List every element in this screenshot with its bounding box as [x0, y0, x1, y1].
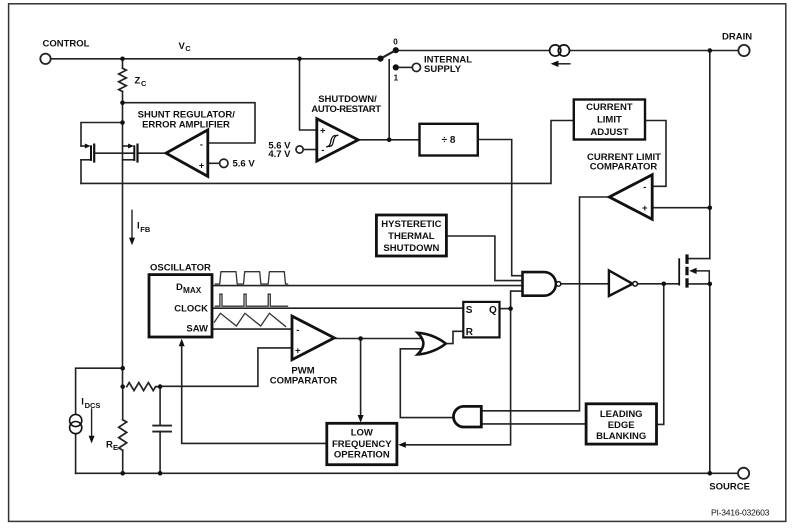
arrowhead IDCS: [89, 436, 95, 444]
terminal DRAIN: [738, 45, 749, 56]
terminal CONTROL: [40, 54, 50, 64]
wire div8 output to NAND: [478, 140, 522, 276]
wire MOSFET body lead: [694, 271, 709, 284]
wire Q to NAND input: [511, 291, 522, 309]
gate inverter: [609, 270, 633, 296]
wire drain vertical: [709, 51, 711, 259]
resistor ZC: [119, 68, 127, 91]
wire feedback loop to error amp minus: [123, 103, 256, 143]
svg-text:FB: FB: [140, 225, 151, 234]
wire node A vertical: [122, 103, 124, 123]
svg-text:HYSTERETIC: HYSTERETIC: [381, 219, 441, 230]
svg-text:DRAIN: DRAIN: [722, 32, 752, 43]
comparator PWM: [292, 316, 334, 360]
arrowhead Q2 drain: [128, 144, 134, 149]
terminal INTERNAL SUPPLY: [412, 63, 420, 71]
oscillator box: [149, 275, 212, 337]
waveform DMAX square wave: [215, 272, 287, 284]
svg-text:C: C: [141, 79, 147, 88]
svg-text:EDGE: EDGE: [608, 420, 635, 431]
wire AND output to OR input: [400, 349, 453, 418]
wire thermal shutdown to NAND: [447, 236, 522, 281]
svg-text:R: R: [106, 439, 113, 450]
comparator shutdown/auto-restart: [317, 119, 358, 161]
wire ZC bottom to feedback node: [122, 92, 124, 103]
terminal SOURCE: [738, 468, 749, 479]
svg-text:LIMIT: LIMIT: [597, 115, 622, 126]
wire capacitor top: [159, 387, 161, 426]
transistor M1 channel dashes: [685, 254, 688, 287]
latch S-R box: [463, 302, 499, 338]
svg-text:SHUTDOWN/: SHUTDOWN/: [318, 94, 377, 105]
wire LEB to AND input: [483, 423, 586, 425]
gate NAND U1: [523, 272, 556, 296]
gate inverter bubble: [633, 282, 638, 287]
svg-text:SHUTDOWN: SHUTDOWN: [383, 243, 439, 254]
wire RE bottom: [122, 450, 124, 473]
switch contact 1: [393, 64, 399, 70]
junction source rail: [708, 471, 713, 476]
transistor Q2 channel bar: [136, 145, 138, 162]
svg-text:OPERATION: OPERATION: [334, 450, 390, 461]
svg-text:E: E: [113, 443, 118, 452]
svg-text:SAW: SAW: [186, 323, 208, 334]
resistor feedback R: [127, 383, 160, 391]
svg-text:SOURCE: SOURCE: [709, 482, 750, 493]
svg-text:C: C: [185, 44, 191, 53]
wire inverter output to gate node: [638, 283, 679, 285]
wire IDCS branch: [76, 368, 123, 414]
svg-text:I: I: [81, 397, 84, 408]
junction PWM output: [358, 336, 363, 341]
svg-text:S: S: [466, 305, 473, 316]
comparator current limit: [609, 175, 652, 220]
junction comparator plus: [708, 205, 713, 210]
svg-text:ADJUST: ADJUST: [590, 127, 628, 138]
wire Q1 drain lead: [81, 145, 85, 147]
terminal 5.6V reference: [220, 159, 228, 167]
leading edge blanking box: [586, 404, 656, 444]
wire SAW line to PWM minus: [213, 328, 292, 330]
wire switch lever: [381, 50, 396, 58]
wire CLOCK line to latch S: [213, 307, 464, 309]
divide-by-8 box: [420, 124, 478, 156]
junction cap rail: [158, 471, 163, 476]
wire shutdown output to switch: [388, 60, 390, 140]
wire MOSFET drain lead: [689, 258, 710, 260]
hysteretic thermal shutdown box: [376, 215, 446, 256]
junction VC-shutdown: [297, 57, 302, 62]
current source IS1 circles: [550, 45, 561, 56]
wire OR output to latch R: [446, 331, 463, 343]
arrowhead MOSFET body: [689, 268, 696, 274]
wire shunt rail to CURRENT LIMIT ADJUST: [81, 121, 573, 184]
svg-text:CURRENT: CURRENT: [586, 102, 633, 113]
svg-text:1: 1: [394, 73, 399, 82]
wire IFB arrow line: [131, 210, 133, 238]
svg-text:LEADING: LEADING: [600, 409, 643, 420]
wire capacitor bottom: [159, 432, 161, 474]
svg-text:I: I: [137, 220, 140, 231]
low frequency operation box: [327, 423, 397, 464]
svg-text:FREQUENCY: FREQUENCY: [332, 439, 392, 450]
wire latch Q output: [500, 308, 511, 310]
junction gate node: [661, 282, 666, 287]
transistor Q2 gate bar: [133, 146, 135, 160]
arrowhead Q to LFO: [398, 442, 406, 448]
wire switch 1 to INTERNAL SUPPLY: [399, 66, 412, 68]
wire VC rail CONTROL to switch: [51, 58, 378, 60]
wire error amp plus to 5.6V: [208, 162, 219, 164]
arrowhead PWM to LFO: [358, 415, 364, 423]
wire IDCS arrow line: [91, 409, 93, 437]
svg-text:+: +: [642, 203, 648, 214]
svg-text:SUPPLY: SUPPLY: [424, 64, 462, 75]
hysteresis glyph: [327, 135, 338, 147]
wire PWM output to OR: [334, 338, 421, 340]
transistor M1 gate bar: [678, 259, 680, 284]
svg-text:CONTROL: CONTROL: [43, 39, 90, 50]
gate AND reversed: [454, 406, 482, 427]
svg-text:÷ 8: ÷ 8: [442, 135, 456, 146]
svg-text:+: +: [295, 345, 301, 356]
junction VC-ZC: [120, 57, 125, 62]
svg-text:COMPARATOR: COMPARATOR: [590, 162, 658, 173]
junction feedback R left: [120, 384, 125, 389]
wire shutdown output to div8: [358, 139, 419, 141]
wire Q1-Q2 gate link: [95, 152, 133, 154]
svg-text:DCS: DCS: [85, 401, 101, 410]
wire MOSFET source lead: [689, 283, 710, 285]
svg-text:0: 0: [393, 38, 398, 47]
svg-text:CLOCK: CLOCK: [174, 303, 208, 314]
svg-text:LOW: LOW: [351, 428, 373, 439]
wire Q to LOW FREQUENCY OPERATION: [401, 309, 511, 445]
arrowhead current source: [551, 61, 559, 67]
svg-text:-: -: [200, 140, 203, 151]
arrowhead SAW feedback: [179, 339, 185, 347]
wire shutdown minus: [303, 149, 316, 151]
wire IDCS bottom: [75, 434, 77, 474]
wire comparator output to AND: [483, 197, 610, 411]
waveform CLOCK pulses: [215, 294, 287, 306]
wire VC to shutdown plus: [300, 59, 317, 130]
junction IDCS branch: [120, 366, 125, 371]
svg-text:THERMAL: THERMAL: [388, 231, 435, 242]
capacitor C plates: [153, 426, 171, 432]
wire Q2 source lead: [123, 159, 135, 161]
wire source rail: [76, 472, 738, 474]
junction latch Q: [508, 306, 513, 311]
resistor RE: [119, 420, 127, 450]
svg-text:+: +: [320, 125, 326, 136]
svg-text:BLANKING: BLANKING: [596, 431, 646, 442]
wire error amp output to Q2: [138, 152, 167, 154]
wire CURRENT LIMIT ADJUST to comparator minus: [646, 121, 667, 187]
wire current source arrow line: [556, 63, 570, 65]
switch pivot: [377, 56, 383, 62]
wire IFB vertical: [122, 123, 124, 387]
wire current source to DRAIN: [570, 50, 739, 52]
gate NAND bubble: [556, 282, 561, 287]
junction ZC-feedback: [120, 100, 125, 105]
svg-text:-: -: [296, 325, 299, 336]
svg-text:+: +: [199, 161, 205, 172]
current source IDCS circles: [70, 414, 82, 426]
junction drain top: [708, 48, 713, 53]
svg-text:-: -: [321, 145, 324, 156]
svg-text:AUTO-RESTART: AUTO-RESTART: [311, 104, 381, 115]
junction shutdown output: [387, 138, 392, 143]
wire RE top: [122, 387, 124, 420]
op-amp shunt regulator/error amplifier: [166, 130, 208, 177]
wire PWM output down to LFO: [360, 339, 362, 419]
waveform SAW ramps: [214, 313, 285, 326]
arrowhead Q1 drain: [85, 144, 91, 149]
svg-text:5.6 V: 5.6 V: [233, 159, 256, 170]
svg-text:Z: Z: [135, 76, 141, 87]
svg-text:4.7 V: 4.7 V: [268, 149, 291, 160]
svg-text:-: -: [643, 182, 646, 193]
terminal shutdown threshold: [296, 146, 303, 153]
switch contact 0: [393, 47, 399, 53]
wire DMAX line to NAND: [213, 285, 522, 287]
svg-text:D: D: [176, 282, 183, 293]
transistor Q1 gate bar: [90, 146, 92, 160]
wire comparator plus to drain node: [653, 207, 710, 209]
junction RE rail: [120, 471, 125, 476]
wire shunt left rail upper: [81, 123, 123, 147]
wire shunt left rail lower: [80, 160, 82, 184]
wire Q1 source lead: [81, 159, 91, 161]
arrowhead IFB: [129, 238, 135, 246]
svg-text:ERROR AMPLIFIER: ERROR AMPLIFIER: [142, 120, 230, 131]
wire switch 0 to current source: [399, 50, 549, 52]
current limit adjust box: [574, 100, 645, 140]
svg-text:COMPARATOR: COMPARATOR: [270, 376, 338, 387]
wire gate node to LEADING EDGE BLANKING: [657, 284, 663, 425]
transistor Q1 channel bar: [93, 145, 95, 162]
wire source vertical to rail: [709, 284, 711, 473]
svg-text:PI-3416-032603: PI-3416-032603: [711, 507, 770, 517]
junction feedback R right: [158, 384, 163, 389]
wire PWM plus sense path: [160, 348, 291, 386]
gate OR: [418, 333, 446, 355]
svg-text:Q: Q: [489, 305, 497, 316]
svg-text:R: R: [466, 327, 474, 338]
svg-text:MAX: MAX: [183, 286, 202, 295]
junction MOSFET source: [708, 282, 713, 287]
svg-text:OSCILLATOR: OSCILLATOR: [150, 262, 211, 273]
wire ZC top: [122, 59, 124, 68]
wire NAND output to inverter: [561, 283, 608, 285]
wire Q2 drain lead: [123, 145, 129, 147]
junction shunt branch: [120, 120, 125, 125]
wire LFO to oscillator feedback: [182, 342, 327, 443]
